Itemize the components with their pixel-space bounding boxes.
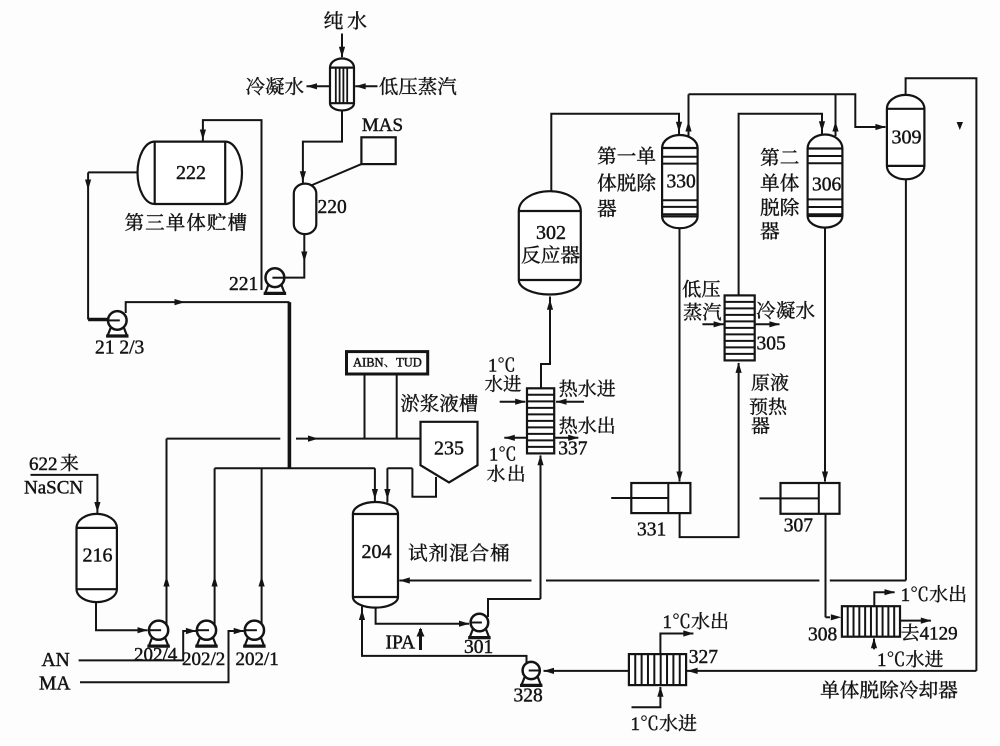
svg-text:330: 330 [667, 172, 696, 193]
svg-text:MAS: MAS [362, 115, 403, 136]
svg-text:MA: MA [39, 674, 70, 695]
svg-text:327: 327 [689, 647, 719, 668]
svg-text:301: 301 [464, 637, 493, 658]
svg-text:1: 1 [901, 585, 911, 606]
svg-text:220: 220 [318, 197, 347, 218]
svg-text:1: 1 [631, 714, 641, 735]
svg-text:AIBN: AIBN [353, 355, 384, 369]
svg-text:328: 328 [514, 686, 543, 707]
svg-text:222: 222 [176, 162, 206, 184]
svg-text:202/1: 202/1 [236, 649, 279, 670]
svg-text:NaSCN: NaSCN [24, 478, 83, 499]
svg-text:1: 1 [663, 612, 673, 633]
svg-text:1: 1 [489, 446, 498, 466]
svg-text:221: 221 [229, 274, 258, 295]
svg-text:305: 305 [757, 334, 786, 355]
svg-text:4129: 4129 [920, 624, 958, 645]
svg-text:IPA: IPA [386, 633, 416, 654]
svg-text:1: 1 [877, 650, 887, 671]
svg-text:235: 235 [434, 438, 464, 460]
svg-text:202/4: 202/4 [134, 645, 178, 666]
svg-text:AN: AN [42, 650, 70, 671]
svg-text:308: 308 [808, 625, 837, 646]
svg-text:TUD: TUD [396, 355, 422, 369]
svg-text:331: 331 [637, 520, 666, 541]
svg-text:337: 337 [558, 439, 588, 460]
svg-text:309: 309 [892, 127, 922, 149]
svg-text:216: 216 [83, 545, 113, 567]
svg-text:204: 204 [362, 541, 392, 563]
svg-text:21 2/3: 21 2/3 [95, 338, 144, 359]
svg-text:302: 302 [536, 222, 566, 244]
svg-text:202/2: 202/2 [182, 649, 225, 670]
svg-text:307: 307 [784, 516, 814, 537]
svg-text:622: 622 [29, 454, 58, 475]
svg-text:306: 306 [812, 175, 842, 196]
svg-text:1: 1 [488, 357, 497, 377]
